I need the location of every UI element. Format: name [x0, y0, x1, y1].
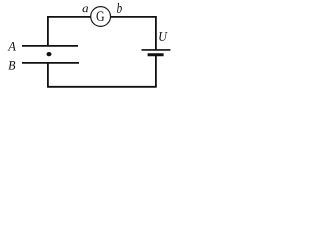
wire top-left segment: [47, 16, 91, 18]
label U: [159, 32, 167, 41]
label B: [8, 61, 15, 70]
wire right vertical upper: [155, 16, 157, 50]
charged particle dot: [47, 52, 52, 56]
wire top-right segment: [110, 16, 156, 18]
galvanometer G: [91, 7, 111, 27]
label A: [8, 42, 16, 51]
capacitor plate A: [22, 45, 78, 47]
capacitor plate B: [22, 62, 79, 64]
node b: [117, 3, 122, 13]
battery U short plate: [148, 53, 164, 56]
node a: [83, 7, 89, 13]
wire bottom: [47, 86, 157, 88]
wire bottom-left vertical: [47, 63, 49, 87]
label G: [97, 11, 105, 21]
wire left vertical to plate A: [47, 16, 49, 46]
battery U long plate: [142, 49, 171, 51]
wire right vertical lower: [155, 55, 157, 87]
